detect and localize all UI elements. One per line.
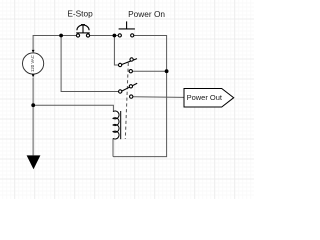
svg-text:120 VAC: 120 VAC: [30, 55, 35, 72]
svg-text:E-Stop: E-Stop: [67, 9, 93, 19]
svg-text:Power Out: Power Out: [187, 93, 223, 102]
svg-text:Power On: Power On: [128, 9, 165, 19]
